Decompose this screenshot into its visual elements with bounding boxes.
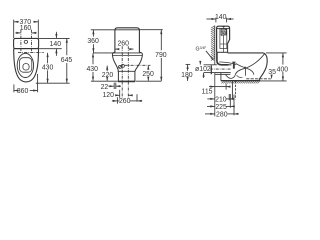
dim 260 (bottom) tick C xyxy=(136,94,138,101)
dim 360 (left) line xyxy=(14,90,16,92)
dim 22 arrow xyxy=(109,85,114,87)
rear hole centerline right xyxy=(127,46,129,102)
lid bottom line xyxy=(115,29,139,31)
tank front lower edge xyxy=(227,44,229,53)
dim 280 left arrow xyxy=(205,113,215,115)
seat extension line xyxy=(266,52,287,54)
dim 260 (bottom) right arrow xyxy=(137,100,142,102)
dim 140: tank top ext already, upper arrow xyxy=(55,32,57,38)
bowl inner rear curve xyxy=(235,53,264,74)
dim 140 (top) right arrow xyxy=(227,18,234,20)
svg-text:115: 115 xyxy=(202,89,213,96)
dim 210 ext tick xyxy=(228,94,230,100)
dim 210 line xyxy=(226,98,230,100)
trap weir bar xyxy=(233,62,235,69)
dim 210 left arrow xyxy=(207,98,214,100)
floor extension line (left view) xyxy=(36,82,70,84)
dim 115 tick xyxy=(225,84,227,90)
floor extension (right view) xyxy=(260,80,286,82)
svg-text:790: 790 xyxy=(155,52,167,59)
dim 260 (bottom) left arrow xyxy=(112,100,117,102)
svg-text:360: 360 xyxy=(87,38,99,45)
dim 370 extension line left xyxy=(13,20,15,39)
tank bottom extension to 140 dim xyxy=(39,48,62,50)
lid top extension line left xyxy=(91,29,115,31)
dim 260 (bottom) line xyxy=(117,100,119,102)
svg-text:210: 210 xyxy=(215,96,227,103)
wall face line xyxy=(214,26,216,65)
weir cap xyxy=(232,61,236,63)
dim 140 lower arrow xyxy=(55,49,57,56)
floor hatching xyxy=(221,81,259,83)
floor (right view) xyxy=(221,80,260,82)
outlet level dash line xyxy=(246,78,271,80)
svg-text:160: 160 xyxy=(20,25,32,32)
hinge circle left xyxy=(119,65,122,68)
dim o102 text xyxy=(196,66,210,72)
dim 180 upper arrow xyxy=(187,65,189,71)
water area contour xyxy=(20,58,32,72)
outlet axis dash-dot (right) xyxy=(210,68,232,70)
dim 225 left arrow xyxy=(207,105,215,107)
hole centerline left xyxy=(20,30,22,54)
dim 430 (middle) lower arrow xyxy=(92,72,94,81)
dim 790 line xyxy=(160,30,162,50)
svg-text:360: 360 xyxy=(17,88,29,95)
outlet pipe bottom extension xyxy=(204,72,215,74)
dim 360 (left) tick right xyxy=(37,74,39,92)
dim 225 right arrow xyxy=(231,105,235,107)
svg-text:280: 280 xyxy=(216,112,228,119)
valve inner line xyxy=(220,43,227,45)
wall hatching xyxy=(211,26,215,61)
trap hole xyxy=(23,64,29,70)
channel top line xyxy=(219,62,236,65)
dim 260 (bottom) text xyxy=(119,98,130,104)
dim 400 line xyxy=(282,53,284,65)
svg-text:430: 430 xyxy=(86,66,98,73)
dim 22 tick 2 xyxy=(115,83,117,89)
dim o102 upper arrow xyxy=(199,61,201,64)
lid top extension line right xyxy=(139,29,162,31)
rear silhouette right xyxy=(135,52,142,71)
dim 430 (middle) upper arrow xyxy=(92,53,94,64)
seat line (right view) xyxy=(228,52,264,54)
bowl front profile xyxy=(259,53,267,81)
dim 360 (middle) upper arrow xyxy=(92,30,94,37)
flush button xyxy=(24,40,27,43)
dim o102 lower arrow xyxy=(203,73,205,78)
tank bottom line xyxy=(217,51,228,53)
hinge dash-dot line xyxy=(18,52,44,54)
dim 370 extension line right xyxy=(37,20,39,39)
seat bottom line xyxy=(113,54,143,56)
floor extension left (for 430/220) xyxy=(91,80,118,82)
dim 180 top tick xyxy=(186,63,191,65)
dim 115 line xyxy=(215,86,226,88)
svg-text:140: 140 xyxy=(215,14,227,21)
dim 115 left arrow xyxy=(209,86,215,88)
dim 280 ext tick xyxy=(233,95,235,116)
outlet pipe top extension xyxy=(204,64,217,66)
rear silhouette left xyxy=(112,52,118,71)
dim 22 tick 1 xyxy=(113,83,115,89)
trap bottom squiggle 1 xyxy=(226,75,236,79)
dim 360 (left) tick left xyxy=(13,84,15,92)
bowl outer outline xyxy=(14,49,39,82)
dim 220 lower arrow xyxy=(106,77,108,81)
dim 225 ext tick xyxy=(229,94,231,108)
dim 430 (left view) line xyxy=(47,53,49,64)
trap bottom squiggle 2 xyxy=(237,75,243,77)
dim 260 (middle top) line xyxy=(115,48,117,50)
G3/8 leader line xyxy=(206,51,214,61)
svg-text:260: 260 xyxy=(117,41,129,48)
pipe mouth at wall xyxy=(210,65,212,74)
fill valve outer xyxy=(220,29,227,49)
svg-text:120: 120 xyxy=(102,92,114,99)
rear hole centerline left xyxy=(121,46,123,102)
dim 280 text xyxy=(216,111,227,117)
svg-text:645: 645 xyxy=(61,57,73,64)
foot right side xyxy=(134,71,136,81)
trap step xyxy=(244,67,245,76)
dim 115 right arrow xyxy=(226,86,230,88)
floor extension right (for 250/790) xyxy=(136,80,162,82)
dim 120 right arrow xyxy=(129,94,133,96)
dim 280 right arrow xyxy=(234,113,238,115)
tank lid line xyxy=(217,28,230,30)
bowl inner front curve xyxy=(236,63,254,75)
valve stem xyxy=(222,35,224,52)
dim 140 (top) tick right xyxy=(226,18,228,23)
dim 225 line xyxy=(226,105,230,107)
svg-text:260: 260 xyxy=(119,98,131,105)
dim 250 upper arrow xyxy=(147,66,149,70)
supply elbow thick xyxy=(217,52,229,64)
foot left side xyxy=(117,71,119,81)
dim 120 tick xyxy=(119,90,121,102)
dim 360 (middle) lower arrow xyxy=(92,44,94,52)
dim 220 upper arrow xyxy=(106,66,108,72)
dim 180 text xyxy=(182,71,193,77)
outlet pipe outer bottom xyxy=(215,73,230,75)
dim 35 arrow xyxy=(271,75,273,79)
tank bottom line xyxy=(14,48,39,50)
dim 22 right arrow xyxy=(116,85,121,87)
fill valve hatched block xyxy=(221,29,226,35)
tank rear outline xyxy=(115,28,139,53)
svg-text:400: 400 xyxy=(277,66,289,73)
svg-text:225: 225 xyxy=(215,104,227,111)
cistern tank front xyxy=(14,38,39,48)
hinge circle right xyxy=(121,64,124,67)
vertical outlet line dashed xyxy=(235,81,237,99)
dim 120 left arrow xyxy=(115,94,119,96)
dim 160 line xyxy=(15,32,20,34)
vertical outlet line solid xyxy=(231,81,233,99)
svg-text:ø102: ø102 xyxy=(195,66,211,73)
dim 210 right arrow xyxy=(229,98,233,100)
hole centerline right xyxy=(31,30,33,54)
tank section outline xyxy=(217,26,230,52)
outlet pipe bottom xyxy=(215,72,231,74)
dim 140 (top) left arrow xyxy=(206,18,215,20)
dim 280 line xyxy=(228,113,234,115)
dim 370 line xyxy=(14,21,19,23)
dim 260 (bottom) tick B xyxy=(116,97,118,104)
dim 140 (top) tick left xyxy=(215,18,217,23)
dim 645 line xyxy=(66,39,68,56)
foot top line xyxy=(118,70,136,72)
foot bottom (floor) thick xyxy=(118,80,135,82)
top extension line for 140/645 xyxy=(39,37,70,39)
outlet axis dash-dot (middle) xyxy=(125,64,151,66)
pedestal rear line xyxy=(220,73,222,81)
seat oval xyxy=(17,53,33,77)
svg-text:430: 430 xyxy=(42,65,54,72)
lid fitting xyxy=(222,26,224,28)
seat top line xyxy=(93,52,141,54)
dim 180 lower arrow xyxy=(187,77,189,81)
svg-text:140: 140 xyxy=(50,41,62,48)
dim 250 lower arrow xyxy=(147,76,149,80)
svg-text:22: 22 xyxy=(101,84,109,91)
dim 210 text xyxy=(216,96,227,102)
dim 225 text xyxy=(216,104,227,110)
outlet pipe top xyxy=(229,64,232,66)
